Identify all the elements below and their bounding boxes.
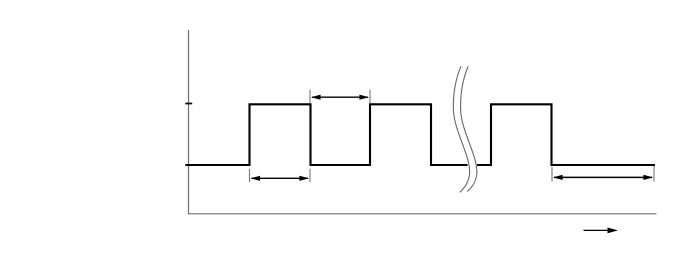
- witness line lower-right (falling edge pulse 1): [309, 169, 311, 182]
- witness line lower-left (rising edge pulse 1): [249, 169, 251, 182]
- break squiggle right curve: [461, 66, 477, 191]
- upper dimension arrow (low-time between pulses): [311, 95, 369, 100]
- lower dimension arrow (pulse-1 width): [251, 176, 310, 181]
- waveform: square pulse train (with break gap): [186, 104, 655, 165]
- witness line right-left (falling edge pulse 3): [551, 167, 553, 182]
- break squiggle left curve: [453, 66, 469, 192]
- witness line right-right (end of trace): [653, 166, 655, 182]
- axis tick at logic-high level: [185, 103, 192, 105]
- horizontal axis (time axis): [188, 213, 657, 215]
- right dimension arrow (long low-time): [553, 175, 653, 180]
- axis tick at logic-low level: [185, 164, 192, 166]
- witness line upper-left (falling edge pulse 1): [309, 90, 311, 104]
- vertical axis: [188, 30, 190, 214]
- witness line upper-right (rising edge pulse 2): [369, 90, 371, 104]
- time direction arrow: [584, 228, 619, 234]
